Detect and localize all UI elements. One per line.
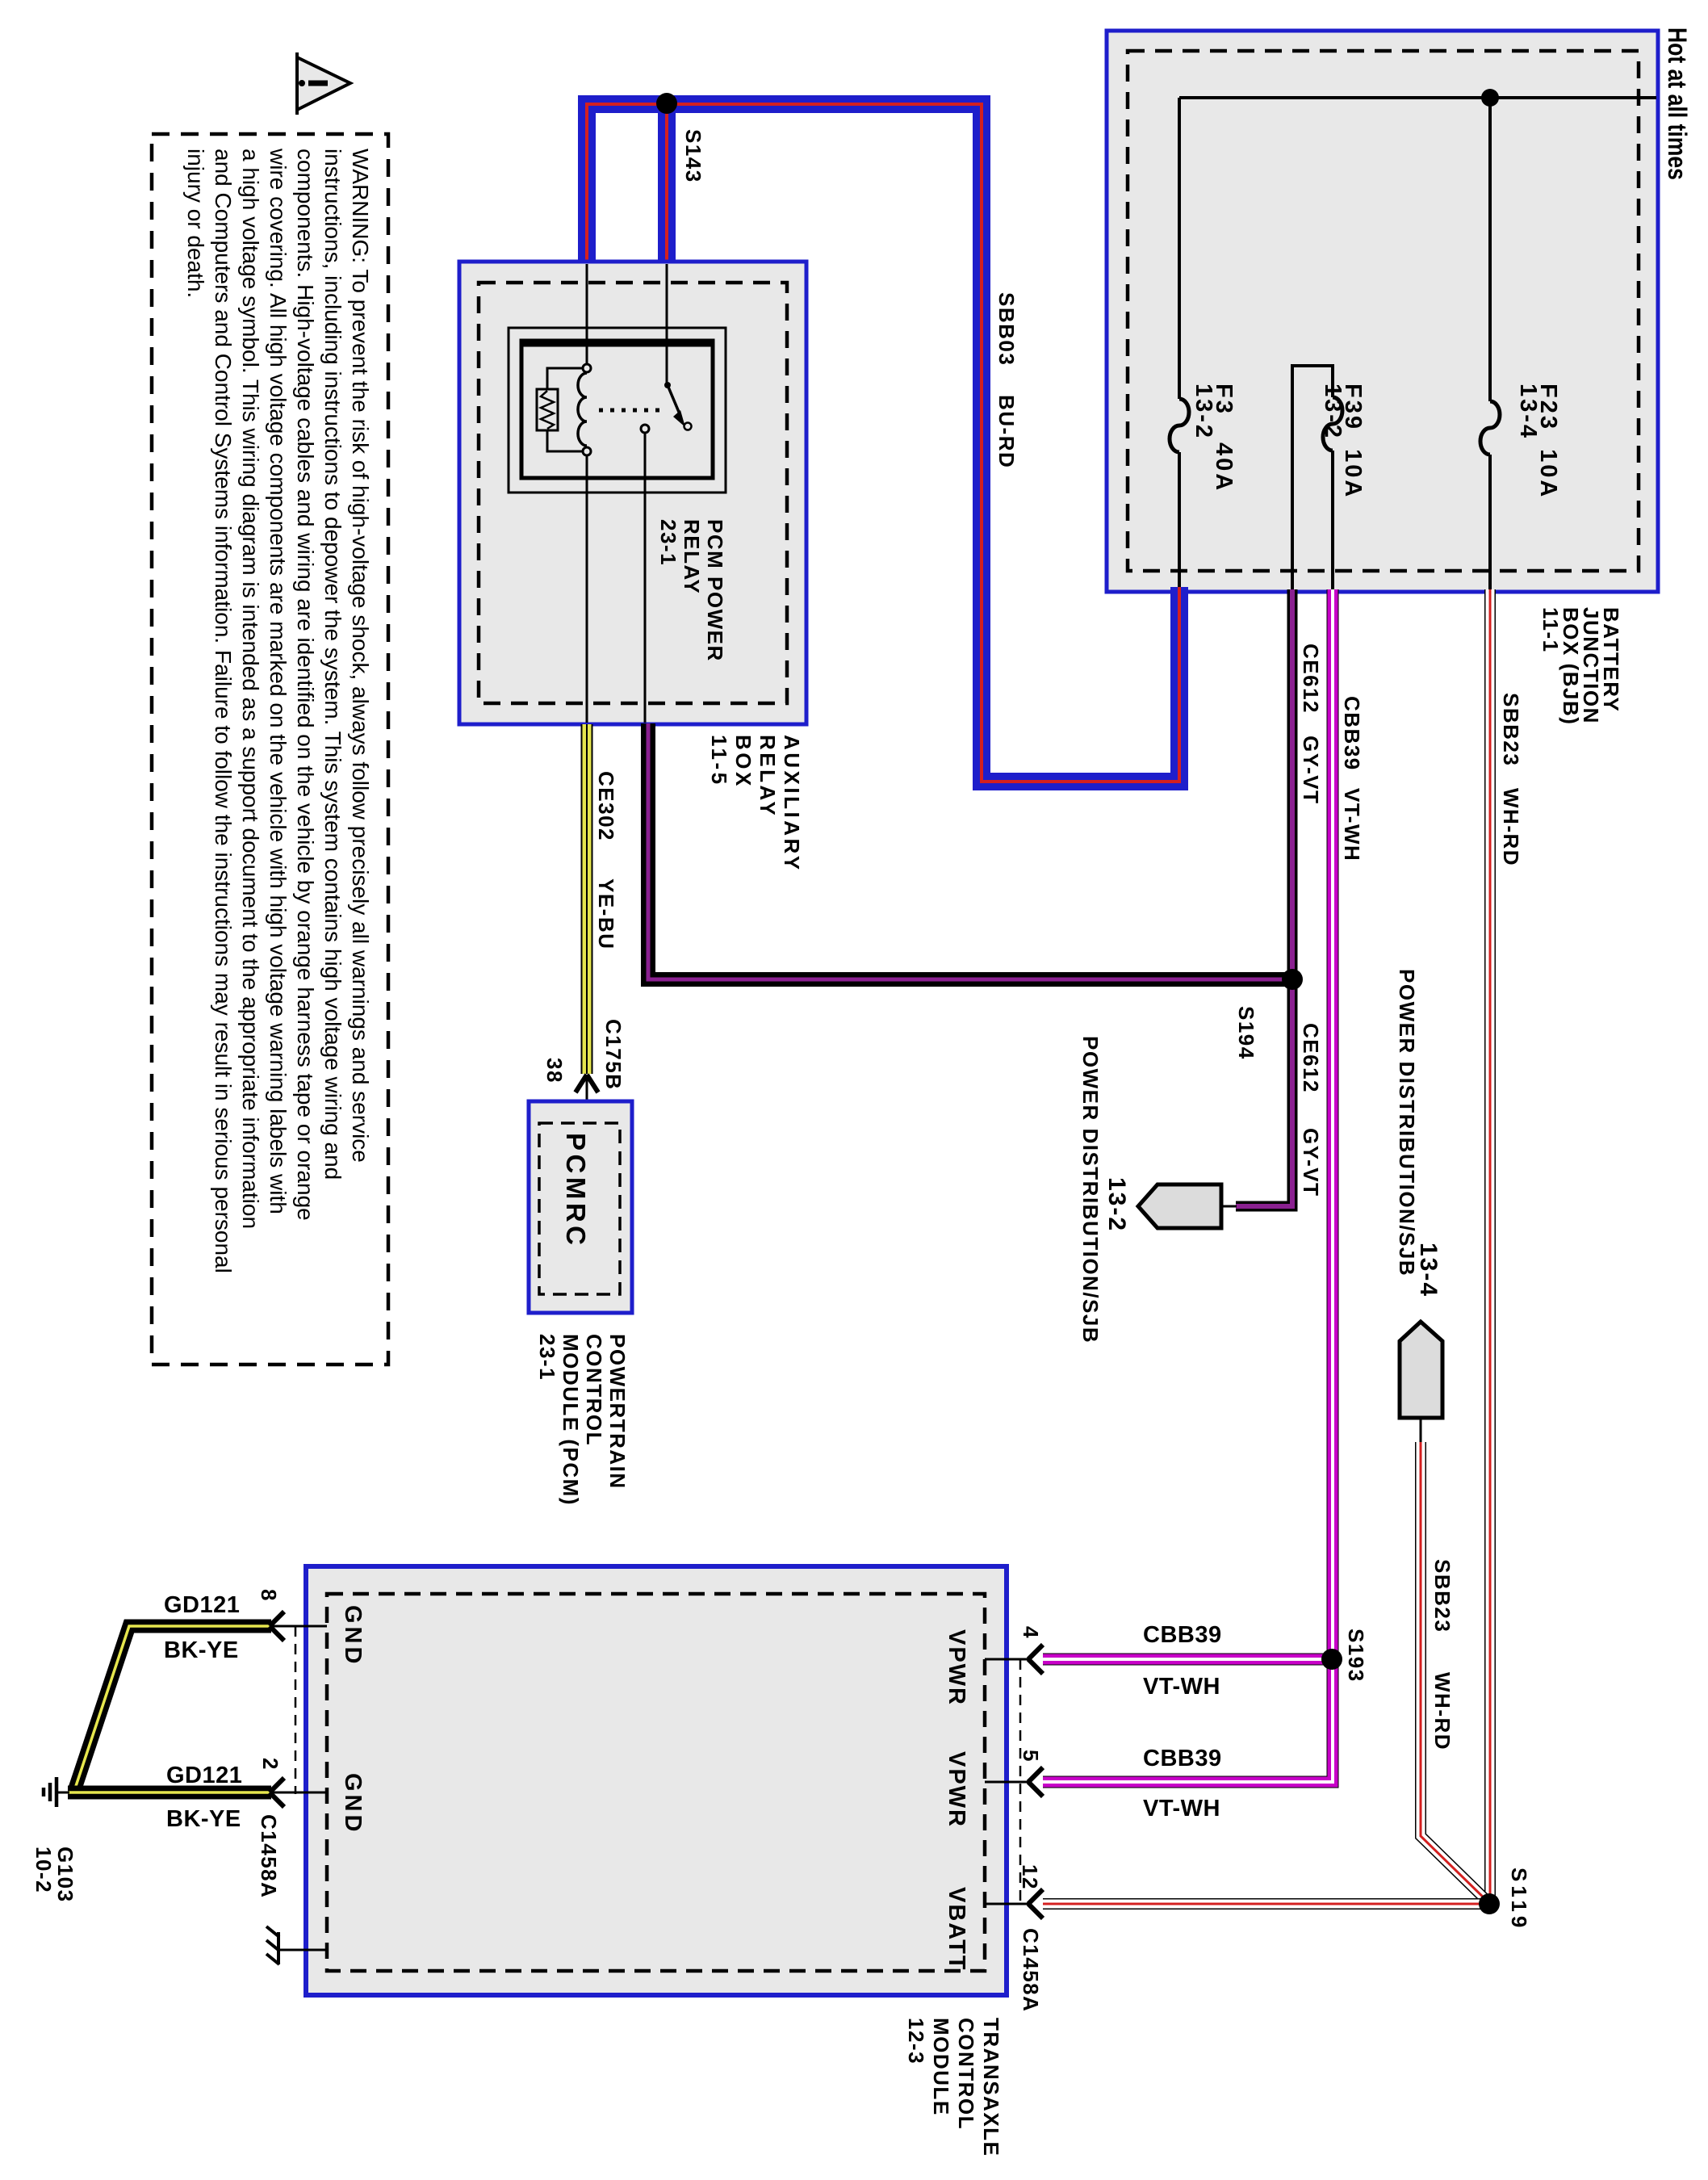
TCM case ground symbol xyxy=(266,1926,327,1964)
wire from relay pin5 to S194 (GY-VT) xyxy=(648,723,1292,979)
label YE-BU xyxy=(594,878,617,950)
fuse F39 10A wire xyxy=(1291,366,1342,589)
label GD121 pin 2 xyxy=(166,1763,242,1789)
relay pin 1 terminal xyxy=(583,364,591,372)
relay pin 1 wire xyxy=(586,264,588,364)
label CBB39 pin 5 xyxy=(1143,1746,1222,1772)
label pin 8 xyxy=(257,1589,280,1602)
wire CBB39 VT-WH from BJB to S193 and TCM xyxy=(1043,589,1333,1782)
label AUXILIARY RELAY BOX 11-5 xyxy=(707,735,804,873)
connector C1458A dashed line right xyxy=(1019,1659,1022,1904)
TCM pin 2 lead and connector arrow xyxy=(270,1778,327,1807)
label GD121 pin 8 xyxy=(164,1592,240,1619)
warning box dashed border xyxy=(152,134,388,1365)
label fuse F23 xyxy=(1518,384,1558,499)
label POWER DISTRIBUTION/SJB 13-2 xyxy=(1078,1036,1102,1344)
ground G103 symbol xyxy=(44,1777,69,1807)
battery junction box BJB xyxy=(1107,31,1658,592)
label pin 2 xyxy=(258,1758,282,1771)
label C1458A left xyxy=(257,1814,280,1898)
label S193 xyxy=(1344,1629,1367,1683)
label S119 xyxy=(1507,1868,1530,1931)
warning triangle xyxy=(297,52,350,115)
label POWER DISTRIBUTION/SJB 13-4 xyxy=(1395,969,1418,1277)
node S193 splice xyxy=(1321,1649,1342,1670)
wire SBB03 BU-RD from BJB to relay box xyxy=(587,104,1179,782)
wire CBB39 VT-WH branch S193 to pin 4 xyxy=(1043,1654,1332,1666)
fuse F23 10A wire xyxy=(1480,98,1500,589)
label BU-RD xyxy=(994,395,1018,468)
wire GD121 BK-YE pin 2 to ground xyxy=(68,1786,271,1800)
label S194 xyxy=(1234,1006,1258,1060)
connector arrow 13-4 POWER DISTRIBUTION/SJB xyxy=(1400,1322,1442,1442)
node S119 splice xyxy=(1479,1893,1500,1914)
auxiliary relay box xyxy=(459,262,806,724)
label GY-VT upper xyxy=(1299,736,1322,805)
label fuse F39 xyxy=(1322,384,1363,499)
label SBB03 xyxy=(994,292,1018,366)
label PCM POWER RELAY 23-1 xyxy=(656,519,726,662)
label CE302 xyxy=(594,771,617,841)
label battery junction box xyxy=(1540,607,1621,725)
label powertrain control module xyxy=(535,1334,629,1506)
relay coil xyxy=(578,373,587,446)
label transaxle control module xyxy=(903,2018,1003,2157)
wire SBB23 WH-RD from 13-4 arrow to S119 xyxy=(1421,1442,1489,1903)
label VT-WH upper xyxy=(1340,788,1363,862)
label VPWR pin 5 xyxy=(944,1751,968,1828)
node S143 splice xyxy=(656,93,677,114)
relay switch arm xyxy=(664,382,692,430)
label G103 10-2 xyxy=(32,1847,76,1903)
wire GD121 BK-YE pin 8 to ground xyxy=(74,1626,271,1791)
TCM pin 5 lead and connector arrow xyxy=(985,1767,1043,1796)
label pin 5 xyxy=(1019,1750,1042,1763)
label C1458A right xyxy=(1019,1928,1042,2012)
label CE612 lower xyxy=(1299,1023,1322,1093)
relay pin 5 wire down xyxy=(644,433,647,723)
transaxle control module box xyxy=(306,1566,1007,1995)
wire CE612 GY-VT from S194 to 13-2 arrow xyxy=(1236,979,1292,1206)
resistor inside relay xyxy=(537,368,583,451)
label VT-WH pin 5 xyxy=(1143,1796,1220,1822)
label VBATT pin 12 xyxy=(944,1887,968,1972)
wire bus inside BJB xyxy=(1179,96,1656,99)
connector arrow 13-2 POWER DISTRIBUTION/SJB xyxy=(1138,1184,1237,1228)
fuse F3 40A wire xyxy=(1170,98,1189,589)
relay pin 3 wire xyxy=(666,264,668,383)
TCM pin 4 lead and connector arrow xyxy=(985,1645,1043,1674)
node S194 splice xyxy=(1282,969,1303,990)
TCM pin 12 lead and connector arrow xyxy=(985,1889,1043,1918)
node BJB bus junction xyxy=(1481,89,1499,107)
label pin 12 xyxy=(1018,1864,1041,1890)
label fuse F3 xyxy=(1193,384,1233,493)
relay pin 5 terminal xyxy=(641,425,649,433)
wire CE612 GY-VT from BJB to S194 xyxy=(1287,589,1298,979)
label 13-2 arrow xyxy=(1105,1177,1128,1232)
wire SBB23 WH-RD from BJB to S119 xyxy=(1484,589,1496,1904)
relay U1 PCM POWER RELAY outline xyxy=(509,328,726,493)
label GND pin 8 xyxy=(341,1605,364,1666)
label SBB23 upper xyxy=(1499,693,1522,766)
label VT-WH pin 4 xyxy=(1143,1674,1220,1700)
label C175B xyxy=(601,1019,625,1090)
label BK-YE pin 2 xyxy=(166,1806,241,1833)
label BK-YE pin 8 xyxy=(164,1637,239,1664)
label SBB23 lower xyxy=(1430,1559,1454,1633)
label pin 4 xyxy=(1019,1626,1042,1639)
label 13-4 arrow xyxy=(1417,1243,1440,1298)
label GY-VT lower xyxy=(1299,1128,1322,1197)
label CBB39 upper xyxy=(1340,696,1363,771)
wire CE302 YE-BU from relay to PCM xyxy=(581,724,593,1074)
label WH-RD upper xyxy=(1499,788,1522,866)
connector C175B arrow pin 38 xyxy=(576,1075,598,1124)
label pin 38 xyxy=(542,1058,566,1084)
label GND pin 2 xyxy=(341,1773,364,1834)
relay dotted actuator line xyxy=(599,409,662,413)
label VPWR pin 4 xyxy=(944,1629,968,1706)
label PCMRC xyxy=(564,1133,588,1249)
relay pin 2 wire down xyxy=(586,455,588,723)
label S143 xyxy=(681,129,705,183)
relay pin 2 terminal xyxy=(583,447,591,455)
TCM pin 8 lead and connector arrow xyxy=(270,1612,327,1641)
connector C1458A dashed line left xyxy=(295,1626,297,1794)
label Hot at all times xyxy=(1664,27,1690,180)
label CBB39 pin 4 xyxy=(1143,1622,1222,1649)
wire WH-RD from S119 to TCM pin 12 xyxy=(1043,1898,1489,1910)
powertrain control module PCMRC box xyxy=(529,1101,632,1313)
warning text xyxy=(182,149,374,1273)
label WH-RD lower xyxy=(1430,1672,1454,1750)
label CE612 upper xyxy=(1299,644,1322,714)
